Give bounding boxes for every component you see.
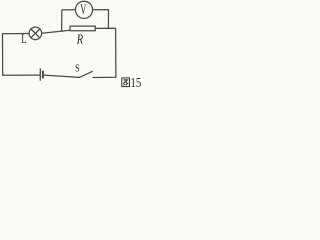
svg-text:R: R [76,31,84,47]
svg-text:S: S [75,64,80,75]
svg-text:15: 15 [131,75,142,89]
svg-text:L: L [21,32,26,46]
svg-text:V: V [80,0,86,17]
